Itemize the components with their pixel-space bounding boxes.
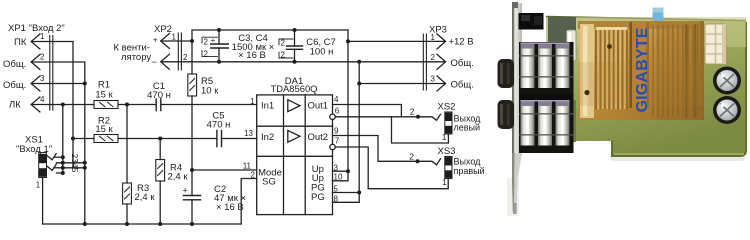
- ground rail: [43, 222, 242, 226]
- svg-text:Общ.: Общ.: [3, 80, 26, 91]
- IC cell labels: [258, 101, 328, 203]
- svg-text:2: 2: [204, 37, 209, 46]
- svg-text:In1: In1: [261, 101, 274, 112]
- svg-text:7: 7: [335, 137, 340, 146]
- svg-text:10 к: 10 к: [201, 86, 219, 97]
- connector XP1 body double line: [50, 36, 53, 111]
- XS3 contact: [418, 159, 441, 165]
- connector XP2 pin 1: [153, 32, 177, 48]
- connector XP1 "Вход 2" label: [8, 23, 65, 34]
- svg-text:9: 9: [334, 126, 339, 135]
- connector XP3 pin 1: [431, 33, 474, 49]
- wire XS2 sleeve return: [392, 117, 449, 143]
- wire ЛК down to XS1: [62, 105, 64, 174]
- junction R2/R4/C5: [158, 137, 162, 141]
- wire Общ drop to pins 5/8: [357, 62, 361, 193]
- connector XP1 pin 3: [31, 74, 45, 91]
- resistor R3 2.4k: [123, 183, 156, 204]
- svg-text:−: −: [152, 57, 157, 67]
- svg-text:SG: SG: [262, 176, 276, 187]
- svg-text:+: +: [211, 36, 216, 45]
- jack body cylinders row 1: [519, 42, 574, 94]
- wire Mode node to pin 11: [192, 169, 257, 171]
- IC pin 6 inversion circle: [330, 107, 340, 120]
- XS2 pin 2 label: [410, 107, 415, 117]
- capacitor C5 470n: [207, 111, 231, 147]
- svg-text:2: 2: [431, 53, 436, 62]
- capacitor C2 47uF: [183, 184, 247, 213]
- capacitor C6,C7 100n: [279, 28, 336, 64]
- PCB board: [546, 17, 746, 157]
- capacitor C1 470n: [147, 81, 171, 111]
- wire C2 bottom to ground: [191, 200, 193, 224]
- connector XS2 jack body: [442, 112, 452, 142]
- IC pin 4 wire (Out1+): [333, 95, 402, 117]
- junction Общ rail to XP3 pin3 drop: [357, 60, 361, 64]
- svg-text:2: 2: [40, 53, 45, 62]
- svg-text:15 к: 15 к: [95, 124, 113, 135]
- GIGABYTE logo band: [630, 22, 652, 113]
- svg-text:2: 2: [251, 170, 256, 179]
- XS3 output labels: [454, 157, 485, 176]
- svg-text:6: 6: [335, 107, 340, 116]
- connector XS1 jack body: [36, 153, 47, 190]
- svg-text:2,4 к: 2,4 к: [168, 172, 189, 183]
- soft shadow under card: [507, 154, 745, 216]
- svg-text:3: 3: [40, 74, 45, 83]
- svg-text:2: 2: [281, 51, 286, 60]
- XS2 output labels: [454, 114, 482, 133]
- IC pin 11 label: [243, 161, 252, 170]
- jack 1 nut through bracket: [498, 59, 515, 88]
- resistor R4 2.4k: [156, 160, 189, 183]
- IC pin 13 label: [244, 129, 253, 138]
- svg-text:In2: In2: [261, 132, 274, 143]
- wire R1 to C1: [118, 104, 156, 106]
- svg-text:2: 2: [204, 49, 209, 58]
- wire C5 to In2: [222, 138, 257, 140]
- wire pin 7 to XS3 sleeve: [335, 147, 448, 189]
- jack 2 nut through bracket: [498, 100, 515, 129]
- junction R1/R3/C1: [125, 103, 129, 107]
- wire R3 top to row1: [126, 105, 128, 184]
- resistor R2 15k: [94, 116, 118, 143]
- svg-text:ЛК: ЛК: [9, 100, 21, 111]
- svg-text:1: 1: [442, 177, 447, 187]
- XS1 pin numbers 2345 (rotated): [70, 154, 80, 173]
- svg-text:3: 3: [334, 163, 339, 172]
- svg-text:левый: левый: [454, 122, 481, 132]
- heatsink screw hole: [584, 44, 611, 95]
- svg-text:GIGABYTE: GIGABYTE: [634, 27, 651, 112]
- svg-text:ХР1 "Вход 2": ХР1 "Вход 2": [8, 23, 65, 34]
- svg-text:Общ.: Общ.: [451, 80, 474, 91]
- wire XP1 pin3 to Общ bus: [31, 83, 85, 85]
- svg-text:5: 5: [334, 185, 339, 194]
- svg-text:100 н: 100 н: [310, 46, 334, 57]
- connector XP2 body double line: [178, 33, 181, 70]
- svg-text:+: +: [153, 35, 158, 45]
- wire +12 node down to R5: [191, 41, 193, 74]
- svg-text:1: 1: [172, 32, 177, 41]
- wire XS1 sleeve to ground rail: [42, 178, 44, 225]
- IC pin 3 wire (Up): [333, 163, 351, 173]
- label Общ. (pin2): [3, 59, 26, 70]
- Общ rail (XP2 pin2 to XP3): [161, 61, 446, 63]
- svg-text:2: 2: [183, 53, 188, 62]
- junction Mode node: [190, 168, 194, 172]
- XS1 contact lower: [47, 164, 57, 170]
- svg-text:4: 4: [334, 95, 339, 104]
- connector XP3 pin 3: [431, 74, 474, 91]
- svg-text:1: 1: [40, 32, 45, 41]
- svg-text:1: 1: [442, 132, 447, 142]
- svg-text:470 н: 470 н: [207, 120, 231, 131]
- svg-text:лятору: лятору: [121, 52, 151, 63]
- connector XP3 label: [429, 25, 447, 36]
- label К вентилятору: [114, 43, 152, 64]
- svg-text:1: 1: [431, 33, 436, 42]
- wire +12 rail corner down to XP3 row: [346, 30, 350, 171]
- svg-text:Общ.: Общ.: [3, 59, 26, 70]
- wire XS1 pin5 stub: [57, 171, 65, 175]
- PCI bracket: [512, 2, 522, 214]
- wire Общ: XP1 pin2 right then down to ground rail: [31, 62, 85, 224]
- IC pin 8 wire (PG): [333, 193, 360, 204]
- wire R3 bottom to ground: [126, 204, 128, 224]
- svg-text:470 н: 470 н: [147, 90, 171, 101]
- svg-text:XS3: XS3: [438, 146, 456, 157]
- wire XS1 pin2 stub: [55, 155, 65, 159]
- svg-text:TDA8560Q: TDA8560Q: [271, 83, 318, 94]
- connector XS2 label: [438, 102, 456, 113]
- IC pin 10 wire (Up): [333, 171, 349, 181]
- svg-text:1: 1: [36, 181, 41, 190]
- svg-text:10: 10: [334, 173, 343, 182]
- svg-text:Out1: Out1: [308, 101, 329, 112]
- IC pin 9 wire (Out2+): [333, 126, 420, 163]
- resistor R1 15k: [94, 80, 118, 109]
- wire pin 6 to XS2: [335, 115, 420, 119]
- jack housing top: [519, 13, 544, 30]
- wire ЛК: XP1 pin4 to R1: [31, 104, 94, 106]
- svg-text:11: 11: [243, 161, 252, 170]
- svg-text:2: 2: [409, 151, 414, 161]
- IC pin 5 wire (PG): [333, 185, 362, 195]
- wire XP3 pin3 row: [359, 83, 445, 85]
- svg-text:2: 2: [410, 107, 415, 117]
- svg-text:PG: PG: [311, 192, 325, 203]
- wire XS1 pin4 stub: [55, 166, 87, 170]
- wire R4 top to row2: [159, 139, 161, 160]
- wire XP2 pin1 to +12 node: [161, 39, 194, 43]
- IC pin 2 (SG) wire and label: [241, 170, 257, 224]
- IC pin 1 label: [250, 97, 255, 106]
- wire ПК bus to R2: [71, 137, 94, 141]
- svg-text:правый: правый: [454, 166, 485, 176]
- capacitor C3,C4 1500uF: [202, 28, 274, 64]
- XS2 contact: [418, 114, 441, 120]
- connector XP1 pin 4: [31, 95, 45, 112]
- connector XS3 label: [438, 146, 456, 157]
- svg-text:Общ.: Общ.: [451, 58, 474, 69]
- connector XP1 pin 2: [31, 53, 45, 70]
- jack housing middle: [519, 93, 574, 102]
- junction ЛК branch: [61, 103, 65, 107]
- svg-text:4: 4: [40, 95, 45, 104]
- label ПК: [14, 37, 27, 48]
- label Общ. (pin3): [3, 80, 26, 91]
- shiny component between jacks and heatsink: [567, 30, 577, 61]
- dark component area left of heatsink: [548, 17, 576, 142]
- white power connector: [705, 24, 726, 64]
- wire +12 row to XP3 pin1: [348, 40, 446, 42]
- wire R4 bottom to ground: [159, 181, 161, 224]
- svg-text:+: +: [183, 186, 188, 196]
- resistor R5 10k: [188, 74, 219, 97]
- XS1 contact upper: [47, 154, 57, 160]
- heatsink body: [578, 21, 704, 120]
- svg-text:Out2: Out2: [308, 132, 329, 143]
- junction XP1 pin3/Общ: [83, 82, 87, 86]
- jack body cylinders row 2: [519, 100, 574, 153]
- XS3 pin 2 label: [409, 151, 414, 161]
- svg-text:1: 1: [250, 97, 255, 106]
- svg-text:13: 13: [244, 129, 253, 138]
- svg-text:15 к: 15 к: [95, 90, 113, 101]
- amplifier triangle 1: [288, 100, 300, 112]
- connector XP1 pin 1: [31, 32, 45, 49]
- connector XS3 jack body: [442, 157, 452, 187]
- wire R2 to C5: [118, 138, 217, 140]
- amplifier triangle 2: [288, 130, 300, 142]
- op-amp IC DA1 TDA8560Q box: [257, 76, 333, 215]
- wire C1 to In1: [161, 104, 257, 106]
- connector XS1 labels: [16, 135, 52, 155]
- svg-text:ПК: ПК: [14, 37, 27, 48]
- IC pin 7 inversion circle: [330, 137, 340, 150]
- svg-text:2: 2: [281, 39, 286, 48]
- wire R5 bottom down to C2: [191, 96, 193, 196]
- +12V top rail: [192, 30, 348, 41]
- blue sticker on heatsink top: [653, 8, 664, 22]
- svg-text:3: 3: [431, 74, 436, 83]
- connector XP3 pin 2: [431, 53, 474, 70]
- wire XS1 pin3 stub: [57, 161, 87, 165]
- wire ПК: XP1 pin1 right then down to XS1: [31, 42, 73, 168]
- connector XP2 pin 2: [152, 53, 188, 69]
- svg-text:XS2: XS2: [438, 102, 456, 113]
- electrolytic capacitor top-right 1: [713, 67, 741, 95]
- svg-text:2,4 к: 2,4 к: [135, 192, 156, 203]
- svg-text:× 16 В: × 16 В: [216, 202, 244, 213]
- svg-text:8: 8: [334, 195, 339, 204]
- connector XP2 label: [154, 24, 172, 35]
- electrolytic capacitor top-right 2: [713, 96, 741, 124]
- connector XP3 body double line: [423, 34, 426, 90]
- svg-text:× 16 В: × 16 В: [238, 50, 266, 61]
- svg-text:+12 В: +12 В: [449, 37, 474, 48]
- label ЛК: [9, 100, 21, 111]
